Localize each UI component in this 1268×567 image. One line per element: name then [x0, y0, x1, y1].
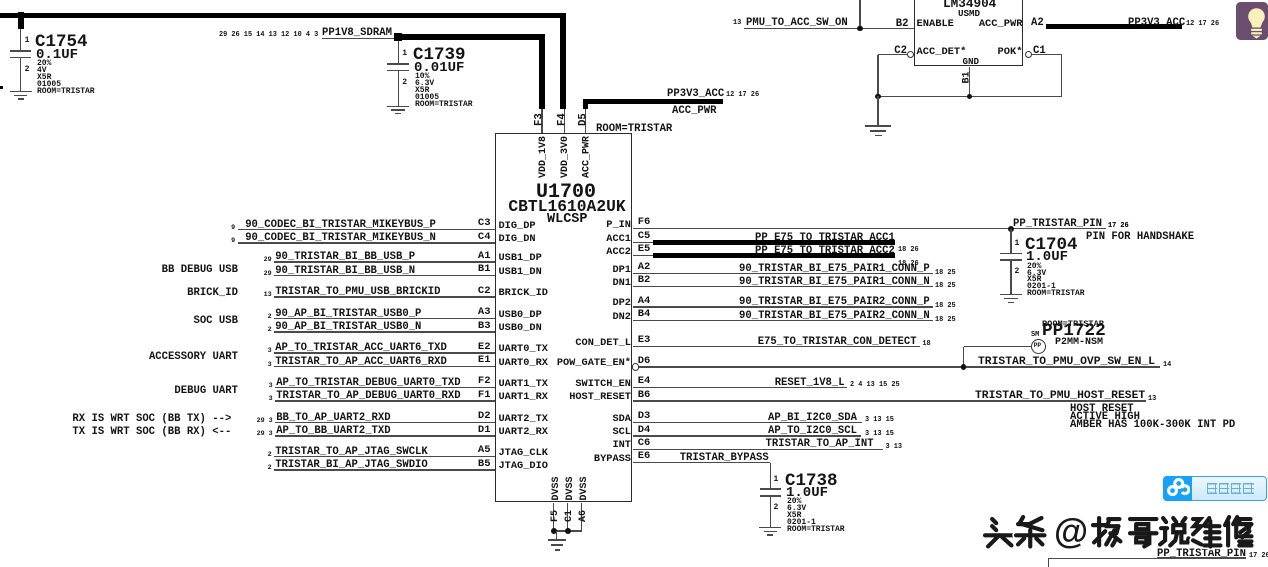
svg-text:B1: B1 — [962, 71, 973, 83]
svg-text:D5: D5 — [578, 113, 590, 126]
svg-text:A6: A6 — [578, 510, 589, 522]
svg-text:C1: C1 — [564, 510, 575, 522]
svg-text:F3: F3 — [534, 113, 546, 126]
svg-text:F4: F4 — [557, 113, 569, 126]
svg-text:F5: F5 — [550, 510, 561, 522]
